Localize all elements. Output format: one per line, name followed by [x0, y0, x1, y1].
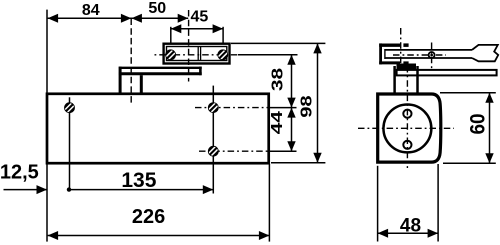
svg-text:48: 48: [400, 215, 421, 236]
svg-text:38: 38: [268, 68, 286, 91]
svg-text:44: 44: [268, 110, 286, 134]
svg-text:135: 135: [121, 169, 156, 192]
svg-text:45: 45: [191, 9, 209, 26]
svg-text:60: 60: [466, 113, 489, 134]
svg-text:12,5: 12,5: [0, 162, 39, 184]
svg-text:84: 84: [82, 2, 100, 19]
svg-text:50: 50: [148, 0, 166, 17]
svg-text:226: 226: [132, 206, 165, 228]
svg-text:98: 98: [298, 95, 315, 117]
